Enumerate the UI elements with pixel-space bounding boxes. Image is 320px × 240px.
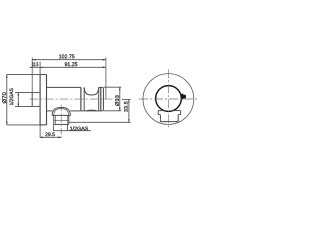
dim O33 bbox=[104, 87, 121, 111]
label Ø33, rotated bbox=[115, 95, 119, 106]
side view: wall stub back face bbox=[31, 93, 33, 107]
centerline horizontal (side axis) bbox=[30, 98, 113, 100]
plate back ext up / down bbox=[39, 62, 41, 138]
label 11.5 bbox=[32, 62, 38, 66]
cup (spool) side view bbox=[81, 87, 103, 111]
extension line right (cup tip) bbox=[105, 58, 107, 100]
dim 102.75 bbox=[32, 59, 106, 61]
stub top/bottom + 1/2GAS ext lines bbox=[15, 93, 40, 107]
1/2GAS bottom label leader + underline bbox=[53, 124, 91, 130]
dim 91.25 / 11.5 shared line bbox=[30, 66, 106, 68]
1/2GAS left dim line bbox=[17, 93, 19, 107]
side view: arm tube bbox=[47, 87, 81, 111]
nozzle front view bbox=[158, 111, 180, 122]
pin / clip button bbox=[181, 94, 186, 100]
nozzle body bbox=[54, 115, 69, 124]
label 29.5 bbox=[45, 132, 55, 136]
label Ø70, rotated bbox=[2, 92, 6, 103]
side view: wall plate bbox=[40, 74, 46, 125]
label 102.75 bbox=[59, 54, 74, 58]
label 33.5, rotated bbox=[124, 101, 128, 112]
dim O70 bbox=[7, 74, 47, 125]
extension + stub back line bbox=[31, 58, 33, 93]
label 91.25 bbox=[65, 62, 78, 66]
cup ring (thick) bbox=[156, 86, 182, 112]
nozzle dome bbox=[52, 107, 71, 115]
dim 29.5 bbox=[40, 136, 61, 138]
label 1/2GAS bottom (outlet thread) bbox=[70, 127, 88, 131]
outer circle (flange) bbox=[143, 74, 194, 125]
nozzle centerline vertical bbox=[60, 105, 62, 138]
label 1/2GAS left (wall thread), rotated bbox=[9, 88, 13, 105]
front view centerlines bbox=[139, 98, 198, 100]
cup tip cap (dark) bbox=[101, 88, 104, 111]
dim 33.5 bbox=[69, 100, 131, 123]
